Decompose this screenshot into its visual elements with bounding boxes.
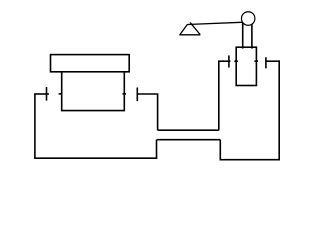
left tank pipe-side lower wall	[156, 140, 158, 159]
connecting pipe bottom line	[157, 139, 221, 141]
connecting pipe top line	[158, 129, 219, 131]
left tank bottom edge	[34, 157, 157, 159]
right tank lower-left wall (below pipe opening)	[219, 140, 221, 160]
fulcrum triangle right side (overshoot above lever)	[190, 22, 200, 34]
right tank bottom edge	[220, 159, 281, 161]
seal tick, vertical, right of left tank top edge	[136, 88, 138, 102]
seal tick, horizontal, on pump cylinder left wall	[234, 60, 238, 62]
right tank top edge, left segment	[218, 60, 230, 62]
pump cylinder (small piston cylinder)	[236, 47, 256, 85]
left tank left wall	[34, 94, 36, 158]
roller circle at lever end	[241, 12, 255, 26]
seal tick, horizontal, on plunger right wall	[123, 93, 127, 95]
left tank top edge, left segment	[34, 93, 49, 95]
large ram plunger (left piston body)	[62, 72, 125, 111]
left tank right wall (down to pipe opening)	[157, 94, 159, 130]
seal tick, horizontal, on plunger left wall	[59, 93, 63, 95]
platform (load table) on large ram	[51, 55, 130, 72]
seal tick, horizontal, on pump cylinder right wall	[254, 60, 258, 62]
left tank top edge, right segment	[137, 93, 159, 95]
seal tick, vertical, left of right tank top edge	[228, 55, 230, 67]
seal tick, vertical, left of left tank top edge	[46, 87, 48, 101]
piston rod left line	[242, 23, 244, 49]
lever arm	[187, 22, 244, 24]
seal tick, vertical, right of right tank top edge	[265, 57, 267, 68]
fulcrum triangle base	[179, 34, 200, 36]
right tank right wall	[278, 60, 280, 159]
fulcrum triangle left side	[180, 24, 188, 34]
piston rod right line	[251, 23, 253, 49]
right tank top edge, right segment	[266, 60, 280, 62]
right tank left wall (above pipe opening)	[218, 61, 220, 130]
